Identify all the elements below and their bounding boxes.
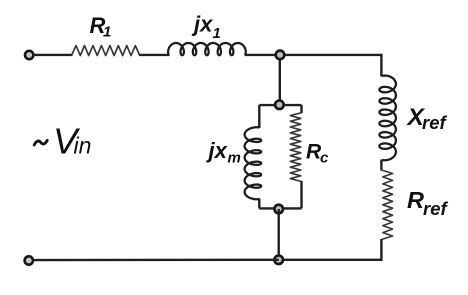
wire: parallel section top horizontal: [259, 104, 301, 106]
inductor jxm: [245, 127, 262, 199]
svg-text:c: c: [320, 150, 329, 167]
wire: parallel section bottom horizontal: [259, 207, 301, 209]
resistor Rref: [381, 170, 392, 240]
node A: top junction: [276, 51, 285, 60]
wire: right branch lower segment: [300, 181, 302, 208]
wire: right column bottom segment to bottom rail corner: [279, 239, 382, 260]
label source tilde: [34, 140, 47, 145]
wire: right branch upper segment (to Rc): [300, 105, 302, 113]
node: bottom rail junction: [274, 255, 283, 264]
node: parallel section top junction: [275, 101, 284, 110]
inductor jx1: [168, 43, 246, 55]
svg-text:jx: jx: [191, 12, 213, 37]
wire: top rail from terminal to R1: [34, 54, 73, 56]
wire: top rail between R1 and jx1: [139, 54, 170, 56]
svg-text:ref: ref: [423, 198, 448, 219]
svg-text:1: 1: [103, 24, 111, 41]
terminal: top-left input terminal: [25, 51, 33, 59]
wire: left branch upper segment: [258, 105, 260, 128]
node: parallel section bottom junction: [274, 205, 283, 214]
wire: vertical drop from node A to parallel section: [279, 55, 281, 105]
wire: right column between Xref and Rref: [380, 160, 382, 171]
wire: top rail from jx1 to node A: [245, 54, 281, 56]
wire: bottom rail from junction to bottom-left terminal: [33, 259, 279, 262]
inductor Xref: [379, 76, 396, 161]
wire: top rail from node A to right corner: [280, 55, 381, 77]
svg-text:m: m: [228, 150, 241, 167]
wire: vertical from parallel section to bottom rail: [278, 209, 280, 260]
resistor Rc: [290, 113, 301, 182]
svg-text:in: in: [74, 133, 92, 159]
svg-text:1: 1: [213, 25, 221, 42]
resistor R1: [72, 46, 140, 56]
terminal: bottom-left input terminal: [25, 256, 33, 264]
svg-text:R: R: [407, 187, 424, 213]
svg-text:jx: jx: [206, 138, 228, 163]
wire: left branch lower segment: [258, 199, 260, 209]
svg-text:ref: ref: [422, 112, 447, 133]
